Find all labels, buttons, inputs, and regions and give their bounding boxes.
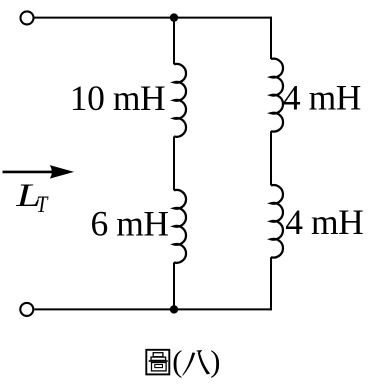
inductor L1 10mH coil — [174, 64, 186, 137]
inductor L4 4mH coil — [271, 185, 283, 258]
caption glyph 圖 middle wide line — [149, 360, 168, 362]
terminal top-left — [21, 11, 34, 24]
caption glyph 圖 outer box — [146, 350, 169, 375]
svg-text:T: T — [36, 192, 49, 218]
svg-text:10 mH: 10 mH — [70, 78, 165, 118]
wire right branch mid — [270, 131, 272, 185]
wire right branch lower — [270, 257, 272, 310]
wire bottom — [34, 308, 271, 310]
wire middle branch lower — [173, 262, 175, 309]
arrow LT line — [3, 171, 56, 174]
caption glyph 圖 bottom box — [152, 363, 167, 371]
node A (top junction) — [170, 13, 178, 21]
caption glyph 八 right stroke body — [198, 352, 210, 374]
caption glyph 八 right stroke head — [196, 350, 202, 353]
wire middle branch upper — [173, 18, 175, 65]
wire right branch upper — [270, 17, 272, 60]
svg-text:): ) — [210, 345, 220, 379]
inductor L3 4mH coil — [271, 59, 283, 132]
caption glyph 圖 bottom inner box — [155, 365, 163, 368]
caption glyph 八 left stroke — [183, 353, 195, 376]
svg-text:4 mH: 4 mH — [283, 78, 361, 118]
wire middle branch mid — [173, 136, 175, 190]
node B (bottom junction) — [170, 305, 178, 313]
svg-text:(: ( — [172, 345, 182, 379]
inductor L2 6mH coil — [174, 190, 186, 263]
svg-text:4 mH: 4 mH — [285, 202, 363, 242]
caption glyph 圖 inner flat box — [151, 357, 166, 360]
terminal bottom-left — [20, 303, 33, 316]
arrow LT head — [51, 166, 73, 178]
svg-text:6 mH: 6 mH — [91, 204, 169, 244]
caption glyph 圖 inner top small box — [153, 353, 163, 357]
wire top — [35, 17, 272, 19]
